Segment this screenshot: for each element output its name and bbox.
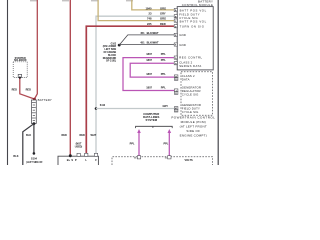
wire RED starter to battery [20, 78, 35, 99]
bracket under data lines label [136, 126, 173, 128]
svg-text:VOLTS: VOLTS [185, 159, 193, 162]
svg-text:BATTERY: BATTERY [38, 98, 52, 102]
svg-text:OF G101): OF G101) [106, 61, 116, 63]
battery plates [32, 101, 36, 103]
svg-text:GRY: GRY [163, 104, 169, 108]
svg-text:CONTROL MODULE: CONTROL MODULE [182, 3, 213, 7]
svg-text:C2: C2 [175, 111, 177, 113]
wire RED turn on sig (row4 + vertical to generator L) [86, 26, 174, 153]
generator pin B+ node [69, 154, 72, 157]
svg-text:CYCLE SIG: CYCLE SIG [182, 92, 199, 96]
svg-text:ENGINE COMPT): ENGINE COMPT) [180, 133, 207, 137]
svg-text:WHT: WHT [90, 134, 96, 137]
cut-off text smudge top 3 [91, 0, 98, 1]
svg-text:1807: 1807 [146, 85, 152, 89]
svg-text:OF ENGINE: OF ENGINE [104, 52, 117, 54]
svg-text:REG CONTRL: REG CONTRL [179, 55, 202, 59]
svg-text:748: 748 [147, 16, 152, 20]
BCM pin E [174, 33, 177, 36]
svg-text:MODULE (PCM): MODULE (PCM) [181, 120, 206, 124]
BCM pin C [174, 19, 177, 22]
battery positive node [33, 98, 36, 101]
svg-text:(ON LOWER: (ON LOWER [103, 46, 117, 48]
svg-text:GND: GND [179, 43, 186, 47]
PCM pin 1/C1 [174, 89, 178, 92]
svg-text:C1: C1 [175, 93, 177, 95]
PCM pin 45/C2 [174, 107, 178, 110]
wire PPL arrow left [138, 132, 140, 156]
svg-text:SIDE OF: SIDE OF [186, 129, 200, 133]
svg-text:POWERTRAIN CONTROL: POWERTRAIN CONTROL [171, 116, 215, 120]
page border left [7, 0, 9, 165]
wire RED generator B+ [69, 0, 71, 156]
svg-text:G104: G104 [31, 158, 38, 161]
PCM pin 36/C3 [174, 75, 178, 78]
splice S116 on GRY wire [95, 107, 98, 110]
svg-text:PPL: PPL [163, 143, 168, 146]
BCM pin G [174, 56, 177, 59]
svg-text:RED: RED [160, 22, 166, 26]
battery control module box [177, 7, 213, 70]
svg-text:GRY: GRY [160, 12, 166, 16]
svg-text:PPL: PPL [161, 58, 166, 62]
svg-text:PPL: PPL [130, 143, 135, 146]
svg-text:G102: G102 [111, 43, 117, 45]
svg-text:LEFT SIDE: LEFT SIDE [104, 49, 116, 51]
svg-text:45: 45 [175, 107, 177, 110]
svg-text:225: 225 [147, 22, 152, 26]
svg-text:BLK: BLK [13, 155, 18, 158]
svg-text:36: 36 [175, 76, 177, 78]
BCM pin A [174, 8, 177, 11]
svg-text:1807: 1807 [146, 58, 152, 62]
svg-text:SERIES DATA: SERIES DATA [179, 64, 201, 68]
svg-text:S116: S116 [100, 105, 106, 107]
wire PPL reg contrl loop (outer) [123, 58, 174, 91]
svg-text:1807: 1807 [146, 52, 152, 56]
generator stub pin (not used) [77, 153, 80, 156]
svg-text:1807: 1807 [146, 72, 152, 76]
svg-text:451 BLK/WHT: 451 BLK/WHT [140, 31, 159, 35]
svg-text:DATA: DATA [182, 78, 190, 82]
ground splice G102 [118, 44, 121, 47]
svg-text:(AT LEFT FRONT: (AT LEFT FRONT [180, 125, 207, 129]
page border right [217, 0, 219, 165]
svg-text:B+: B+ [67, 158, 71, 162]
svg-text:BLOCK: BLOCK [108, 55, 117, 57]
svg-text:SYSTEM: SYSTEM [146, 118, 158, 122]
BCM pin D [174, 25, 177, 28]
wire BLK battery to ground [33, 124, 35, 154]
starter B terminal [18, 74, 21, 77]
BCM pin F [174, 43, 177, 46]
battery negative node [33, 122, 36, 125]
svg-text:RED: RED [62, 134, 67, 137]
svg-text:RED: RED [80, 134, 85, 137]
svg-text:PPL: PPL [161, 72, 166, 76]
svg-text:23: 23 [149, 12, 152, 16]
wire BLK battery to lower left [23, 124, 34, 165]
wire RED battery feed (left) [34, 0, 37, 99]
wire GRY field duty cycle sig (vertical + row2) [96, 16, 174, 154]
instrument cluster dashed box [112, 157, 213, 165]
svg-text:S: S [71, 158, 73, 162]
wire BLK/WHT to BCM GND lower [119, 44, 174, 46]
generator box [58, 156, 98, 165]
PCM dashed box [181, 72, 213, 116]
svg-text:C3: C3 [175, 79, 177, 81]
svg-text:GND: GND [179, 33, 186, 37]
battery box [31, 100, 36, 123]
generator pin L box [85, 153, 88, 156]
wire BLK/WHT to BCM GND upper [119, 35, 174, 45]
cluster pin box left [137, 156, 140, 159]
BCM pin H [174, 62, 177, 65]
svg-text:CYCLE SIG: CYCLE SIG [182, 110, 199, 114]
svg-text:451 BLK/WHT: 451 BLK/WHT [140, 41, 159, 45]
svg-text:ORG: ORG [160, 16, 166, 20]
cut-off text smudge top 1 [30, 0, 37, 1]
cut-off text smudge top 4 [126, 0, 133, 1]
wire ORG row1 to BCM pin A [132, 0, 174, 10]
generator pin F box [94, 153, 97, 156]
svg-text:RED: RED [26, 89, 31, 92]
svg-text:USED): USED) [75, 146, 83, 149]
svg-text:PPL: PPL [161, 85, 166, 89]
svg-text:BLK: BLK [26, 134, 31, 137]
ground node G104 [33, 152, 36, 155]
wire ORG row3 to BCM pin C [98, 0, 174, 21]
svg-text:REARWARD: REARWARD [103, 57, 117, 60]
wire GRY splice to PCM field duty pin [96, 108, 174, 110]
cut-off text smudge top 2 [62, 0, 69, 1]
BCM pin B [174, 15, 177, 18]
wire PPL arrow right [168, 132, 170, 156]
svg-text:1840: 1840 [146, 6, 152, 10]
wire PPL class 2 serial data loop (inner) [130, 63, 174, 77]
svg-text:1: 1 [176, 90, 177, 92]
svg-text:(LEFT SIDE OF: (LEFT SIDE OF [26, 162, 43, 164]
svg-text:ORG: ORG [160, 6, 166, 10]
svg-text:BATT POS VOL: BATT POS VOL [180, 19, 207, 23]
svg-text:PPL: PPL [161, 52, 166, 56]
svg-text:RED: RED [12, 89, 17, 92]
starter dashed box [13, 62, 27, 78]
svg-text:P: P [75, 158, 77, 162]
cluster pin box right [168, 156, 171, 159]
svg-text:TURN ON SIG: TURN ON SIG [180, 25, 205, 29]
